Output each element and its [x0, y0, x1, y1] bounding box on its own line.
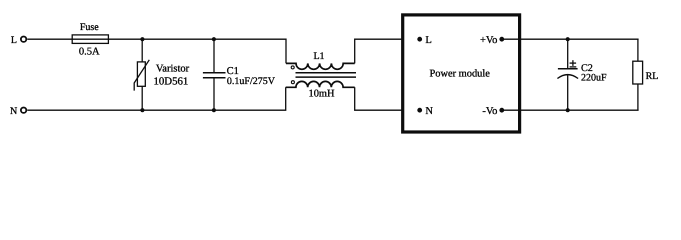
terminal L: [11, 35, 26, 46]
svg-text:10mH: 10mH: [309, 89, 335, 100]
wire choke to module L pin: [355, 39, 420, 63]
svg-text:Varistor: Varistor: [156, 64, 190, 75]
svg-text:RL: RL: [646, 71, 659, 82]
pin -Vo: [482, 106, 504, 117]
wire choke to module N pin: [355, 87, 420, 110]
svg-text:10D561: 10D561: [154, 75, 189, 87]
svg-text:Fuse: Fuse: [80, 22, 99, 33]
svg-text:0.5A: 0.5A: [79, 47, 100, 58]
svg-text:N: N: [425, 106, 433, 117]
wire +Vo rail: [502, 38, 639, 40]
node C2 top junction: [566, 37, 570, 41]
wire bottom rail N terminal to choke: [27, 87, 285, 110]
pin N: [417, 106, 433, 117]
svg-text:+Vo: +Vo: [480, 35, 497, 46]
wire L terminal to fuse: [27, 38, 72, 40]
svg-text:-Vo: -Vo: [482, 106, 497, 117]
L1 top phase dot: [291, 66, 294, 69]
power module U1: [403, 15, 520, 132]
fuse F1: [72, 35, 108, 44]
svg-text:L: L: [425, 35, 431, 46]
pin L: [417, 35, 432, 46]
varistor RV1: [134, 39, 149, 110]
node C2 bottom junction: [566, 108, 570, 112]
node C1 bottom junction: [212, 108, 216, 112]
inductor L1 top winding: [286, 63, 355, 69]
pin +Vo: [480, 35, 504, 46]
terminal N: [10, 106, 26, 117]
wire -Vo rail: [502, 109, 639, 111]
svg-text:L: L: [11, 35, 17, 46]
L1 bottom phase dot: [291, 81, 294, 84]
node varistor top junction: [140, 37, 144, 41]
svg-text:220uF: 220uF: [581, 73, 607, 84]
node C1 top junction: [212, 37, 216, 41]
svg-text:Power module: Power module: [430, 69, 491, 80]
svg-text:N: N: [10, 106, 17, 117]
capacitor C2 polarized: [557, 39, 578, 110]
node varistor bottom junction: [140, 108, 144, 112]
inductor L1 bottom winding: [286, 81, 355, 87]
svg-text:L1: L1: [313, 51, 324, 62]
wire top rail fuse to choke: [108, 39, 286, 63]
resistor RL: [633, 39, 643, 110]
capacitor C1: [203, 39, 226, 110]
svg-text:0.1uF/275V: 0.1uF/275V: [227, 76, 276, 87]
L1 core: [296, 73, 357, 77]
